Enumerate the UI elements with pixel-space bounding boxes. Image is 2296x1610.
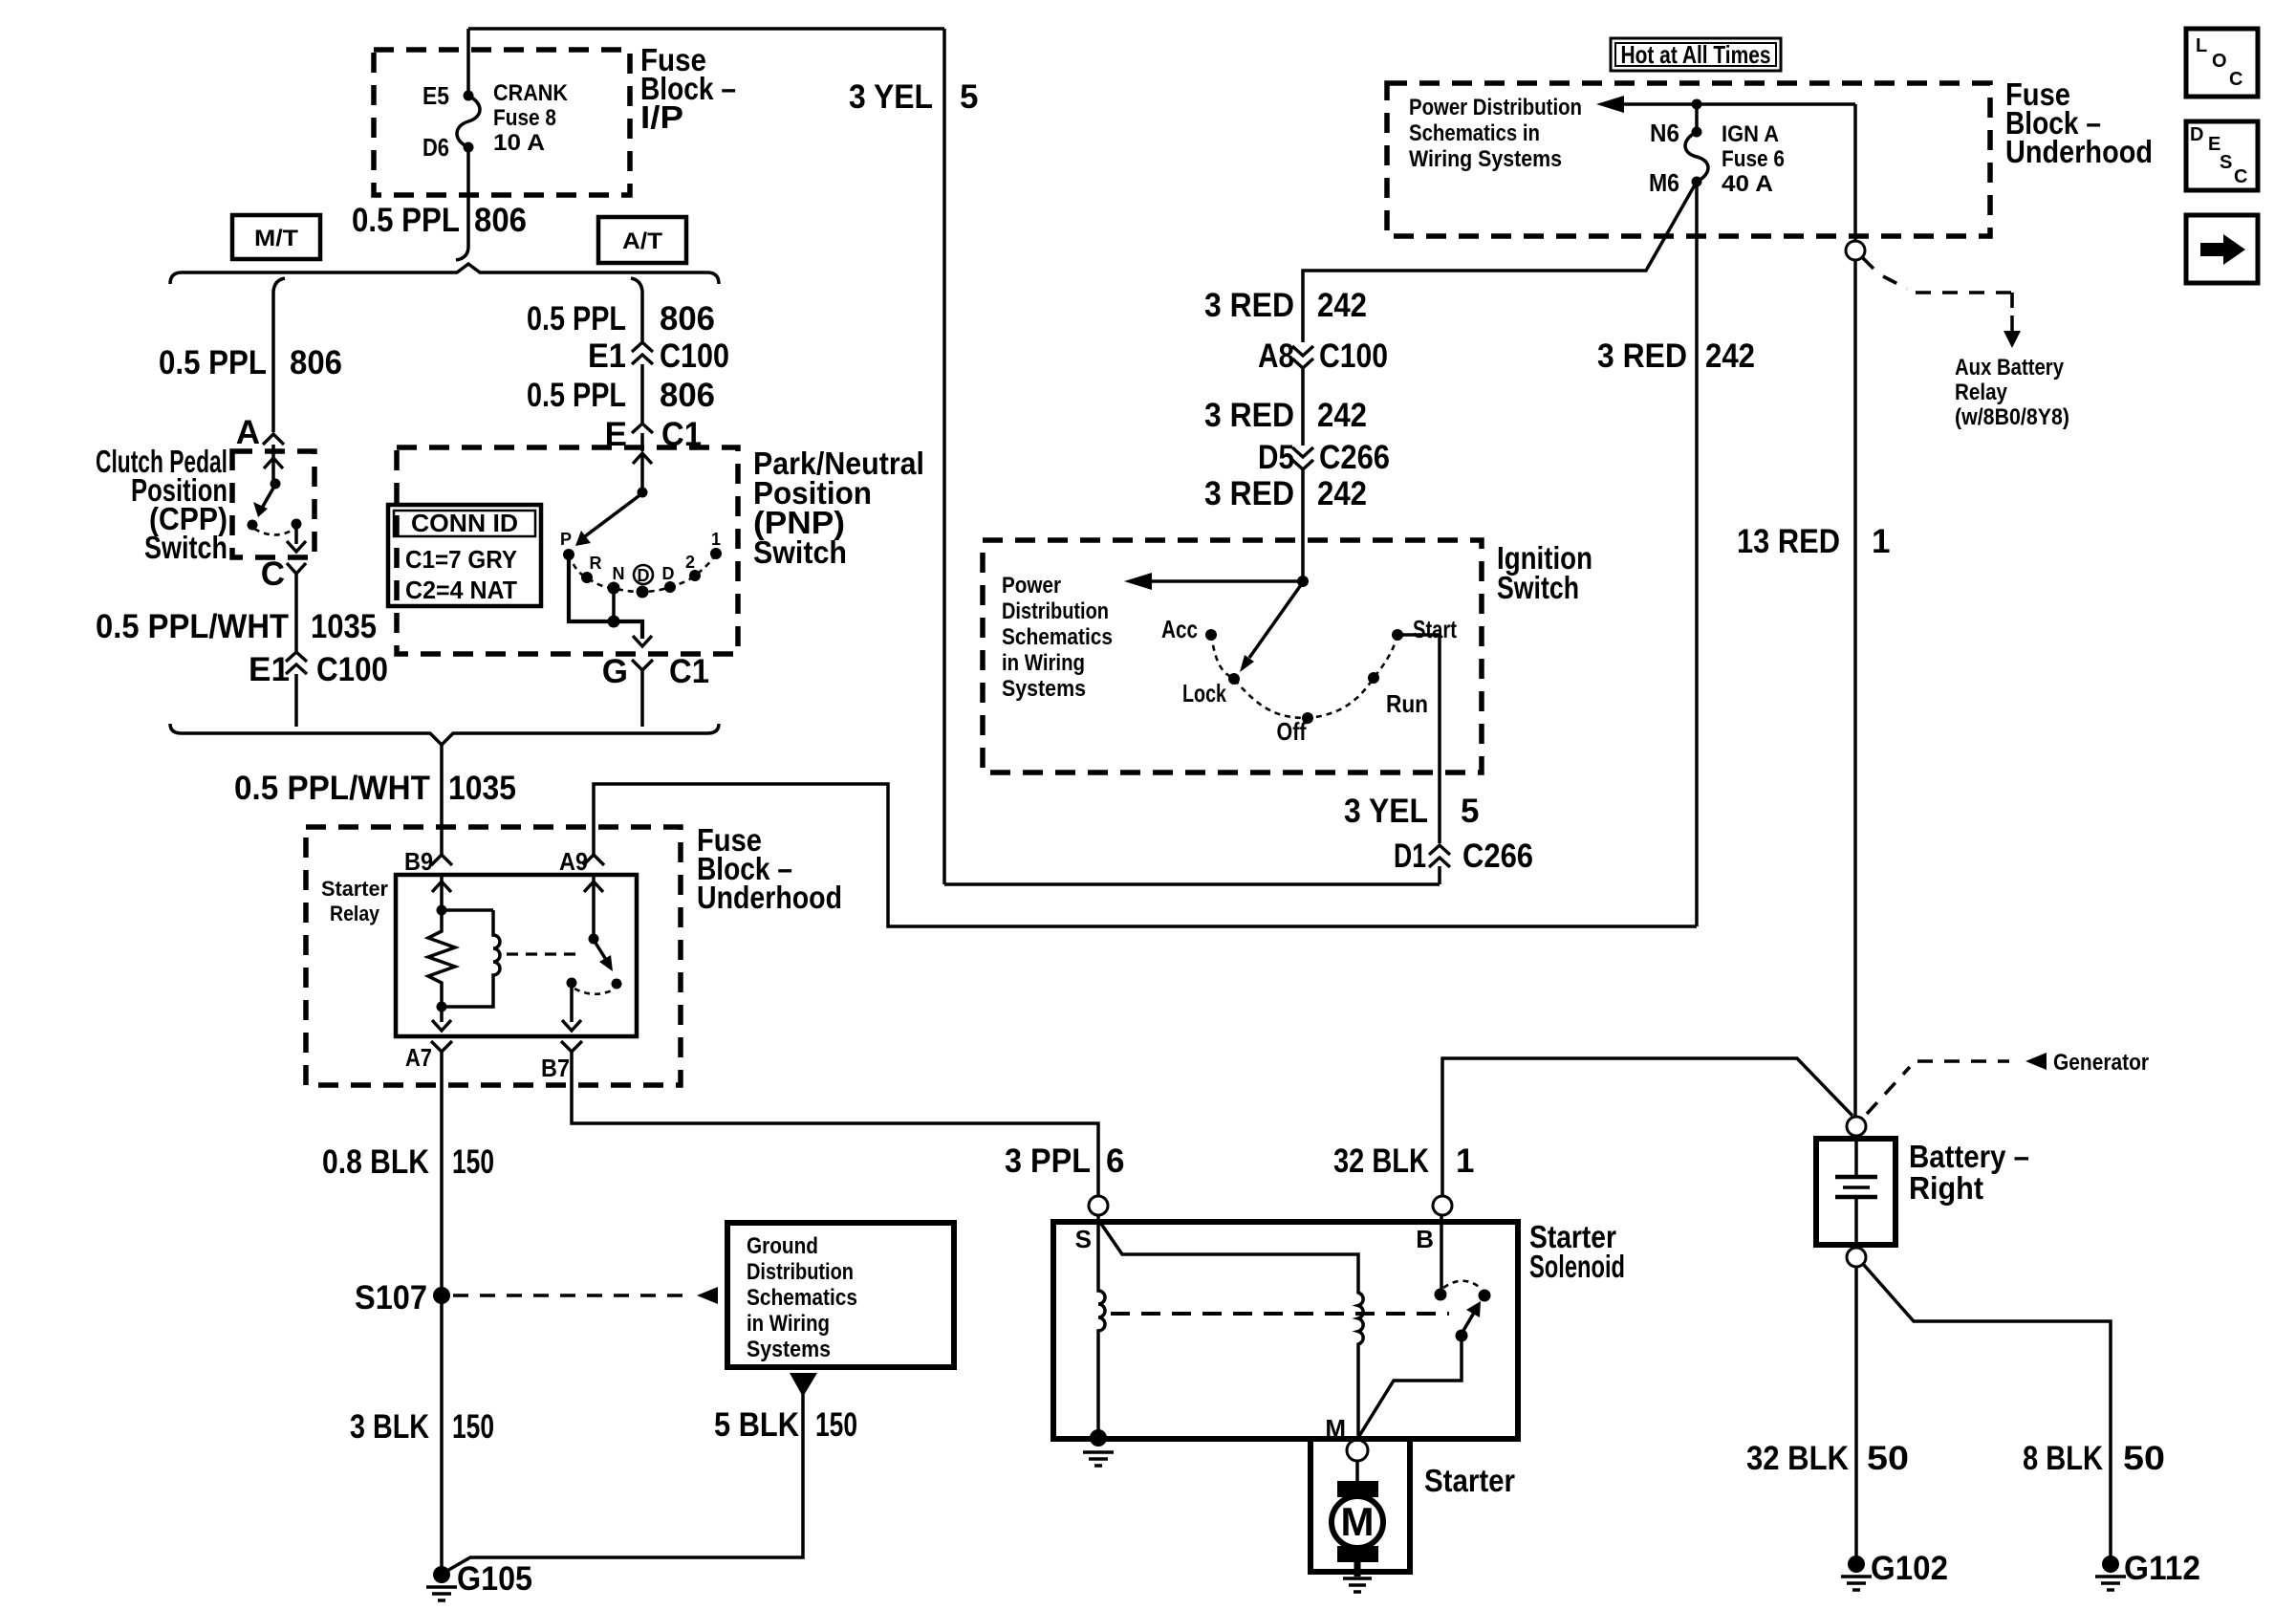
S107 dashed reference arrow xyxy=(453,1294,694,1297)
svg-text:806: 806 xyxy=(660,377,715,414)
svg-text:B7: B7 xyxy=(541,1054,570,1082)
terminal E5 dot xyxy=(464,91,474,101)
svg-text:5 BLK: 5 BLK xyxy=(714,1406,799,1444)
svg-text:Relay: Relay xyxy=(1955,380,2008,405)
svg-text:D6: D6 xyxy=(422,133,449,162)
ignition power distribution arrow xyxy=(1150,579,1303,583)
label Aux Battery Relay (w/8B0/8Y8) xyxy=(1955,355,2069,430)
label 3 RED 242 (4) xyxy=(1597,337,1755,375)
starter motor M1 xyxy=(1332,1481,1383,1562)
wire: M6 diagonal to 3 RED chain xyxy=(1303,182,1697,342)
arrow legend box xyxy=(2186,215,2258,283)
svg-text:0.5 PPL: 0.5 PPL xyxy=(352,202,460,239)
svg-text:C1=7 GRY: C1=7 GRY xyxy=(405,545,517,574)
svg-text:Off: Off xyxy=(1277,717,1307,746)
svg-text:50: 50 xyxy=(2123,1440,2165,1477)
relay A7 exit arrow xyxy=(440,1007,444,1022)
svg-text:Relay: Relay xyxy=(330,902,380,925)
solenoid right contact dot xyxy=(1479,1290,1491,1302)
svg-text:in Wiring: in Wiring xyxy=(1002,650,1085,676)
svg-text:M: M xyxy=(1341,1499,1375,1544)
label 32 BLK 1 xyxy=(1333,1142,1474,1180)
svg-text:0.8 BLK: 0.8 BLK xyxy=(322,1143,429,1181)
svg-text:D1: D1 xyxy=(1394,838,1426,875)
relay mechanical dashed link xyxy=(507,952,575,955)
svg-text:Systems: Systems xyxy=(1002,676,1086,702)
CPP entry arrow xyxy=(264,458,283,468)
svg-text:242: 242 xyxy=(1317,397,1367,434)
svg-text:M/T: M/T xyxy=(254,226,298,251)
svg-text:8 BLK: 8 BLK xyxy=(2023,1440,2103,1477)
starter solenoid box xyxy=(1053,1222,1518,1439)
svg-text:D5: D5 xyxy=(1258,439,1294,476)
svg-text:O: O xyxy=(2212,51,2227,72)
svg-text:C1: C1 xyxy=(669,653,709,690)
wire: 13 RED upper xyxy=(1853,104,1857,241)
wire: A7 to S107 xyxy=(440,1052,444,1288)
power distribution arrow xyxy=(1622,102,1697,106)
relay armature pivot dot xyxy=(589,934,599,945)
label Ignition Switch xyxy=(1497,540,1592,605)
wire: top horizontal feed xyxy=(468,27,944,31)
label 8 BLK 50 xyxy=(2023,1440,2165,1477)
svg-text:806: 806 xyxy=(290,344,342,381)
CPP exit arrow xyxy=(294,529,298,544)
svg-text:(w/8B0/8Y8): (w/8B0/8Y8) xyxy=(1955,404,2069,430)
wire: 3 YEL 5 vertical xyxy=(942,29,946,884)
ignition switch dashed box xyxy=(983,540,1482,772)
PNP position dots xyxy=(563,549,574,560)
label Fuse Block - Underhood (top) xyxy=(2005,76,2153,169)
svg-text:3 RED: 3 RED xyxy=(1204,475,1294,512)
clutch pedal position switch dashed box xyxy=(232,451,314,557)
svg-text:13 RED: 13 RED xyxy=(1737,523,1840,560)
svg-text:Distribution: Distribution xyxy=(1002,598,1109,624)
label Power Distribution Schematics in Wiring Systems (top) xyxy=(1409,95,1582,172)
svg-text:P: P xyxy=(560,530,572,549)
wire: M6 down to relay feed xyxy=(1695,182,1699,926)
wire: battery branch to G112 xyxy=(1863,1264,2111,1558)
relay A9 entry arrow xyxy=(592,875,596,937)
svg-text:32 BLK: 32 BLK xyxy=(1746,1440,1849,1477)
svg-text:Fuse 6: Fuse 6 xyxy=(1722,146,1785,172)
relay resistor xyxy=(428,910,455,1007)
wire: junction to 13 RED xyxy=(1697,102,1855,106)
connector D1 C266 xyxy=(1394,838,1533,875)
svg-text:806: 806 xyxy=(474,202,527,239)
svg-text:Wiring Systems: Wiring Systems xyxy=(1409,146,1562,172)
svg-text:G112: G112 xyxy=(2124,1550,2200,1587)
solenoid contact linkage to M xyxy=(1359,1341,1462,1436)
starter relay box xyxy=(396,875,637,1036)
terminal B circle xyxy=(1433,1196,1452,1215)
wire: horizontal to D1 C266 xyxy=(944,882,1440,886)
wire: A/T branch xyxy=(631,278,642,342)
ignition position labels xyxy=(1161,615,1457,746)
svg-text:G105: G105 xyxy=(457,1560,532,1598)
svg-text:in Wiring: in Wiring xyxy=(747,1311,830,1337)
label Battery - Right xyxy=(1909,1139,2029,1206)
hot at all times box xyxy=(1611,38,1781,71)
ignition switch arm xyxy=(1249,582,1303,658)
svg-text:E5: E5 xyxy=(422,81,449,110)
ground distribution schematics box xyxy=(727,1223,954,1367)
svg-text:C: C xyxy=(2234,166,2247,187)
svg-text:C100: C100 xyxy=(1319,337,1388,375)
wire: B7 to solenoid S xyxy=(572,1052,1098,1196)
svg-text:Power: Power xyxy=(1002,573,1061,598)
svg-text:0.5 PPL: 0.5 PPL xyxy=(527,377,626,414)
wire: M/T branch xyxy=(273,278,285,432)
svg-text:A: A xyxy=(236,414,260,451)
label Park/Neutral Position (PNP) Switch xyxy=(753,446,924,570)
wire: into CPP switch xyxy=(271,445,275,482)
label 32 BLK 50 xyxy=(1746,1440,1909,1477)
PNP N contact drop wire xyxy=(612,594,616,621)
solenoid contact arm xyxy=(1462,1313,1474,1334)
svg-text:M6: M6 xyxy=(1649,168,1679,197)
svg-text:Systems: Systems xyxy=(747,1337,831,1362)
svg-text:5: 5 xyxy=(1461,793,1479,830)
starter motor ground stem xyxy=(1354,1562,1361,1577)
svg-text:3 RED: 3 RED xyxy=(1204,397,1294,434)
PNP dashed detent arc xyxy=(569,554,716,592)
svg-text:150: 150 xyxy=(452,1143,494,1181)
label 3 BLK 150 xyxy=(350,1408,494,1446)
svg-text:C100: C100 xyxy=(316,651,388,688)
label 0.5 PPL/WHT 1035 (combined) xyxy=(234,770,516,807)
svg-text:S: S xyxy=(2220,152,2232,173)
connector C glyph xyxy=(287,563,306,574)
svg-text:3 YEL: 3 YEL xyxy=(849,78,933,116)
CPP pivot dot xyxy=(271,479,281,490)
wire: B to fixed contact xyxy=(1440,1215,1443,1289)
svg-text:C100: C100 xyxy=(660,337,729,375)
connector E1 C100 (A/T) xyxy=(588,337,729,375)
wire: 13 RED to battery xyxy=(1853,260,1857,1117)
svg-text:D: D xyxy=(2190,124,2203,145)
connector A7 glyph xyxy=(431,1041,452,1052)
label 3 PPL 6 xyxy=(1005,1142,1124,1180)
svg-text:C2=4 NAT: C2=4 NAT xyxy=(405,576,517,604)
ground G112 xyxy=(2102,1556,2119,1573)
relay moving contact dot xyxy=(612,979,622,990)
svg-text:Power Distribution: Power Distribution xyxy=(1409,95,1582,120)
PNP entry arrow xyxy=(640,453,644,492)
svg-text:10 A: 10 A xyxy=(493,130,545,156)
relay dashed throw arc xyxy=(574,989,614,994)
svg-text:0.5 PPL/WHT: 0.5 PPL/WHT xyxy=(96,608,289,645)
svg-text:1: 1 xyxy=(711,530,721,549)
svg-text:Switch: Switch xyxy=(1497,570,1579,605)
svg-text:A9: A9 xyxy=(559,847,588,876)
fuse block I/P dashed box xyxy=(374,50,630,195)
svg-text:150: 150 xyxy=(815,1406,857,1444)
CPP dashed throw arc xyxy=(254,529,294,535)
label 3 YEL 5 (top) xyxy=(849,78,978,116)
svg-text:C266: C266 xyxy=(1319,439,1390,476)
svg-text:A7: A7 xyxy=(405,1043,432,1072)
svg-text:Distribution: Distribution xyxy=(747,1259,854,1285)
relay armature arm xyxy=(594,940,608,963)
label Starter Solenoid xyxy=(1529,1219,1625,1284)
PNP pivot dot xyxy=(638,488,648,498)
wire: S107 to G105 xyxy=(440,1295,444,1569)
connector E C1 xyxy=(605,416,702,453)
svg-text:3 YEL: 3 YEL xyxy=(1344,793,1428,830)
svg-text:D: D xyxy=(638,566,650,585)
battery right box xyxy=(1816,1139,1895,1245)
battery cell symbol xyxy=(1854,1139,1858,1176)
label 0.5 PPL 806 (M/T) xyxy=(159,344,342,381)
svg-text:3 RED: 3 RED xyxy=(1597,337,1687,375)
label Clutch Pedal Position (CPP) Switch xyxy=(96,444,227,565)
svg-text:A/T: A/T xyxy=(622,228,662,254)
wire: down to E5 xyxy=(466,29,470,96)
terminal circle below fuse block xyxy=(1846,241,1865,260)
wire: D5 into ignition switch xyxy=(1301,469,1305,581)
battery top terminal circle xyxy=(1847,1117,1866,1136)
generator dashed reference xyxy=(1867,1061,2009,1114)
connector D5 C266 xyxy=(1258,439,1390,476)
relay B7 exit arrow xyxy=(570,987,574,1022)
label 0.5 PPL/WHT 1035 (M/T) xyxy=(96,608,377,645)
label 5 BLK 150 xyxy=(714,1406,857,1444)
fuse F6 IGN A 40A element xyxy=(1685,132,1708,182)
M/T box xyxy=(232,215,320,259)
svg-text:3 RED: 3 RED xyxy=(1204,287,1294,324)
solenoid winding ground dot xyxy=(1090,1429,1107,1447)
svg-text:1: 1 xyxy=(1456,1142,1474,1180)
fuse F8 CRANK 10A element xyxy=(457,96,480,147)
starter motor ground symbol xyxy=(1343,1578,1372,1592)
svg-text:G102: G102 xyxy=(1871,1550,1948,1587)
aux battery relay dashed tap xyxy=(1883,276,2012,310)
CPP switch arm xyxy=(261,485,275,510)
terminal D6 dot xyxy=(464,142,474,153)
fuse block underhood dashed box (relay) xyxy=(306,827,681,1085)
svg-text:Underhood: Underhood xyxy=(697,880,842,915)
PNP P contact drop wire xyxy=(569,559,639,621)
wire: combined output to B9 xyxy=(440,745,444,855)
junction dot IGN A feed xyxy=(1692,99,1702,110)
relay B9 entry arrow xyxy=(440,875,444,908)
svg-text:Switch: Switch xyxy=(753,534,847,570)
svg-text:Underhood: Underhood xyxy=(2005,134,2153,169)
svg-text:1035: 1035 xyxy=(311,608,377,645)
svg-text:242: 242 xyxy=(1705,337,1755,375)
svg-text:S107: S107 xyxy=(355,1279,427,1316)
splice S107 dot xyxy=(433,1287,450,1304)
ground G105 xyxy=(433,1566,450,1583)
battery bottom terminal circle xyxy=(1847,1248,1866,1267)
connector E1 C100 (left) xyxy=(249,651,388,688)
svg-text:Generator: Generator xyxy=(2053,1050,2149,1076)
wire: D6 down to brace xyxy=(456,147,468,260)
wire: 5 BLK 150 to G105 xyxy=(445,1394,803,1572)
label 3 RED 242 (1) xyxy=(1204,287,1367,324)
connector A8 C100 xyxy=(1258,337,1388,375)
label Starter Relay xyxy=(321,877,388,925)
svg-text:Hot at All Times: Hot at All Times xyxy=(1621,40,1771,69)
ignition position dots xyxy=(1205,629,1217,641)
relay coil bottom junction dot xyxy=(437,1002,447,1012)
desc legend box xyxy=(2186,121,2258,190)
solenoid fixed contact dot xyxy=(1435,1289,1447,1301)
svg-text:1: 1 xyxy=(1872,523,1890,560)
connector A9 chevron xyxy=(583,855,604,865)
svg-text:Solenoid: Solenoid xyxy=(1529,1249,1625,1284)
svg-text:B: B xyxy=(1416,1225,1434,1253)
label Fuse Block - I/P xyxy=(640,42,736,135)
PNP exit arrow xyxy=(639,621,642,639)
svg-text:I/P: I/P xyxy=(640,99,683,135)
svg-text:Schematics: Schematics xyxy=(1002,624,1113,650)
ignition junction dot xyxy=(1297,576,1309,587)
wire: A8 to D5 xyxy=(1301,368,1305,446)
svg-text:N: N xyxy=(613,564,625,583)
svg-text:S: S xyxy=(1075,1225,1092,1253)
label 3 YEL 5 (lower) xyxy=(1344,793,1479,830)
svg-text:150: 150 xyxy=(452,1408,494,1446)
svg-text:0.5 PPL: 0.5 PPL xyxy=(527,300,626,337)
label Fuse Block - Underhood (relay) xyxy=(697,822,842,915)
park/neutral position switch dashed box xyxy=(397,447,738,654)
label CRANK Fuse 8 10 A xyxy=(493,80,569,156)
wire: M circle to motor xyxy=(1355,1461,1359,1484)
svg-text:6: 6 xyxy=(1106,1142,1124,1180)
relay parallel branch wire xyxy=(442,908,493,912)
svg-text:Run: Run xyxy=(1386,689,1428,718)
starter box xyxy=(1310,1439,1410,1572)
svg-text:3 PPL: 3 PPL xyxy=(1005,1142,1091,1180)
loc legend box xyxy=(2186,29,2258,97)
solenoid dashed throw arc xyxy=(1443,1281,1482,1289)
label 13 RED 1 xyxy=(1737,523,1890,560)
svg-text:B9: B9 xyxy=(404,847,433,876)
svg-text:Starter: Starter xyxy=(321,877,388,901)
svg-text:242: 242 xyxy=(1317,287,1367,324)
svg-text:E1: E1 xyxy=(249,651,290,688)
solenoid mechanical dashed link xyxy=(1111,1312,1449,1316)
ground G102 xyxy=(1848,1556,1865,1573)
svg-text:0.5 PPL: 0.5 PPL xyxy=(159,344,267,381)
solenoid hold-in winding xyxy=(1098,1215,1105,1439)
svg-text:242: 242 xyxy=(1317,475,1367,512)
terminal M circle xyxy=(1347,1440,1368,1461)
wire: battery to G102 xyxy=(1854,1267,1858,1558)
terminal M6 dot xyxy=(1692,177,1702,187)
svg-text:0.5 PPL/WHT: 0.5 PPL/WHT xyxy=(234,770,430,807)
label 0.5 PPL 806 (A/T lower) xyxy=(527,377,715,414)
svg-text:CONN ID: CONN ID xyxy=(411,509,518,537)
label 3 RED 242 (3) xyxy=(1204,475,1367,512)
svg-text:Schematics in: Schematics in xyxy=(1409,120,1540,146)
label IGN A Fuse 6 40 A xyxy=(1722,121,1785,197)
svg-text:Fuse 8: Fuse 8 xyxy=(493,105,556,131)
svg-text:Lock: Lock xyxy=(1182,679,1226,707)
ground distribution exit triangle xyxy=(790,1373,817,1397)
svg-text:C266: C266 xyxy=(1462,838,1533,875)
solenoid pull-in winding xyxy=(1101,1224,1363,1439)
svg-text:5: 5 xyxy=(960,78,978,116)
svg-text:Aux Battery: Aux Battery xyxy=(1955,355,2065,381)
svg-text:C: C xyxy=(261,555,285,593)
wire: stub below D1 C266 xyxy=(1438,866,1441,884)
label 0.5 PPL 806 (top) xyxy=(352,202,527,239)
label 0.8 BLK 150 xyxy=(322,1143,494,1181)
relay common contact dot xyxy=(567,978,577,989)
svg-text:806: 806 xyxy=(660,300,715,337)
CPP right contact dot xyxy=(292,519,302,530)
wire: C to E1 C100 xyxy=(294,574,298,652)
fuse block underhood dashed box (top) xyxy=(1387,83,1990,236)
solenoid winding ground symbol xyxy=(1083,1452,1114,1466)
svg-text:Battery –: Battery – xyxy=(1909,1139,2029,1174)
label Power Distribution Schematics in Wiring Systems (ignition) xyxy=(1002,573,1113,702)
PNP junction dot xyxy=(608,616,620,628)
svg-text:3 BLK: 3 BLK xyxy=(350,1408,429,1446)
wire: to bottom brace (M/T) xyxy=(294,674,298,727)
svg-text:C: C xyxy=(2229,69,2242,90)
label 3 RED 242 (2) xyxy=(1204,397,1367,434)
svg-text:CRANK: CRANK xyxy=(493,80,569,106)
brace joining outputs xyxy=(170,724,719,745)
ignition dashed detent arc xyxy=(1211,635,1397,718)
svg-text:E1: E1 xyxy=(588,337,626,375)
svg-text:32 BLK: 32 BLK xyxy=(1333,1142,1429,1180)
connector G C1 xyxy=(602,653,709,690)
relay coil xyxy=(442,910,500,1007)
svg-text:R: R xyxy=(590,554,602,573)
svg-text:D: D xyxy=(662,564,675,583)
connector B7 glyph xyxy=(561,1041,582,1052)
wire: G C1 to bottom brace xyxy=(640,670,644,727)
svg-text:50: 50 xyxy=(1867,1440,1909,1477)
wire: B terminal to battery feed xyxy=(1442,1058,1852,1196)
svg-text:2: 2 xyxy=(685,553,695,572)
solenoid contact arm pivot dot xyxy=(1456,1330,1468,1342)
svg-text:L: L xyxy=(2196,35,2207,56)
PNP switch arm xyxy=(581,493,642,539)
svg-text:IGN A: IGN A xyxy=(1722,121,1779,147)
CPP left contact dot xyxy=(248,520,258,531)
wire: Start to D1 C266 xyxy=(1397,635,1440,843)
PNP circled D indicator xyxy=(634,565,653,585)
svg-text:Ground: Ground xyxy=(747,1233,818,1259)
PNP position labels xyxy=(560,530,721,583)
terminal N6 dot xyxy=(1692,127,1702,138)
wire: stub to N6 xyxy=(1695,104,1699,132)
svg-text:Switch: Switch xyxy=(144,530,227,565)
svg-text:Acc: Acc xyxy=(1161,615,1198,643)
svg-text:1035: 1035 xyxy=(448,770,516,807)
brace splitting M/T and A/T xyxy=(170,264,719,284)
svg-text:N6: N6 xyxy=(1650,119,1679,147)
svg-text:G: G xyxy=(602,653,628,690)
terminal S circle xyxy=(1089,1196,1108,1215)
svg-text:40 A: 40 A xyxy=(1722,171,1773,197)
wire: between connectors (A/T) xyxy=(640,364,644,424)
svg-text:Schematics: Schematics xyxy=(747,1285,857,1311)
CONN ID table box xyxy=(388,505,541,606)
svg-text:A8: A8 xyxy=(1258,337,1294,375)
A/T box xyxy=(598,217,686,263)
svg-text:Start: Start xyxy=(1413,615,1457,643)
label 0.5 PPL 806 (A/T upper) xyxy=(527,300,715,337)
wire: relay feed to A9 xyxy=(594,784,1697,926)
svg-text:Right: Right xyxy=(1909,1170,1983,1206)
